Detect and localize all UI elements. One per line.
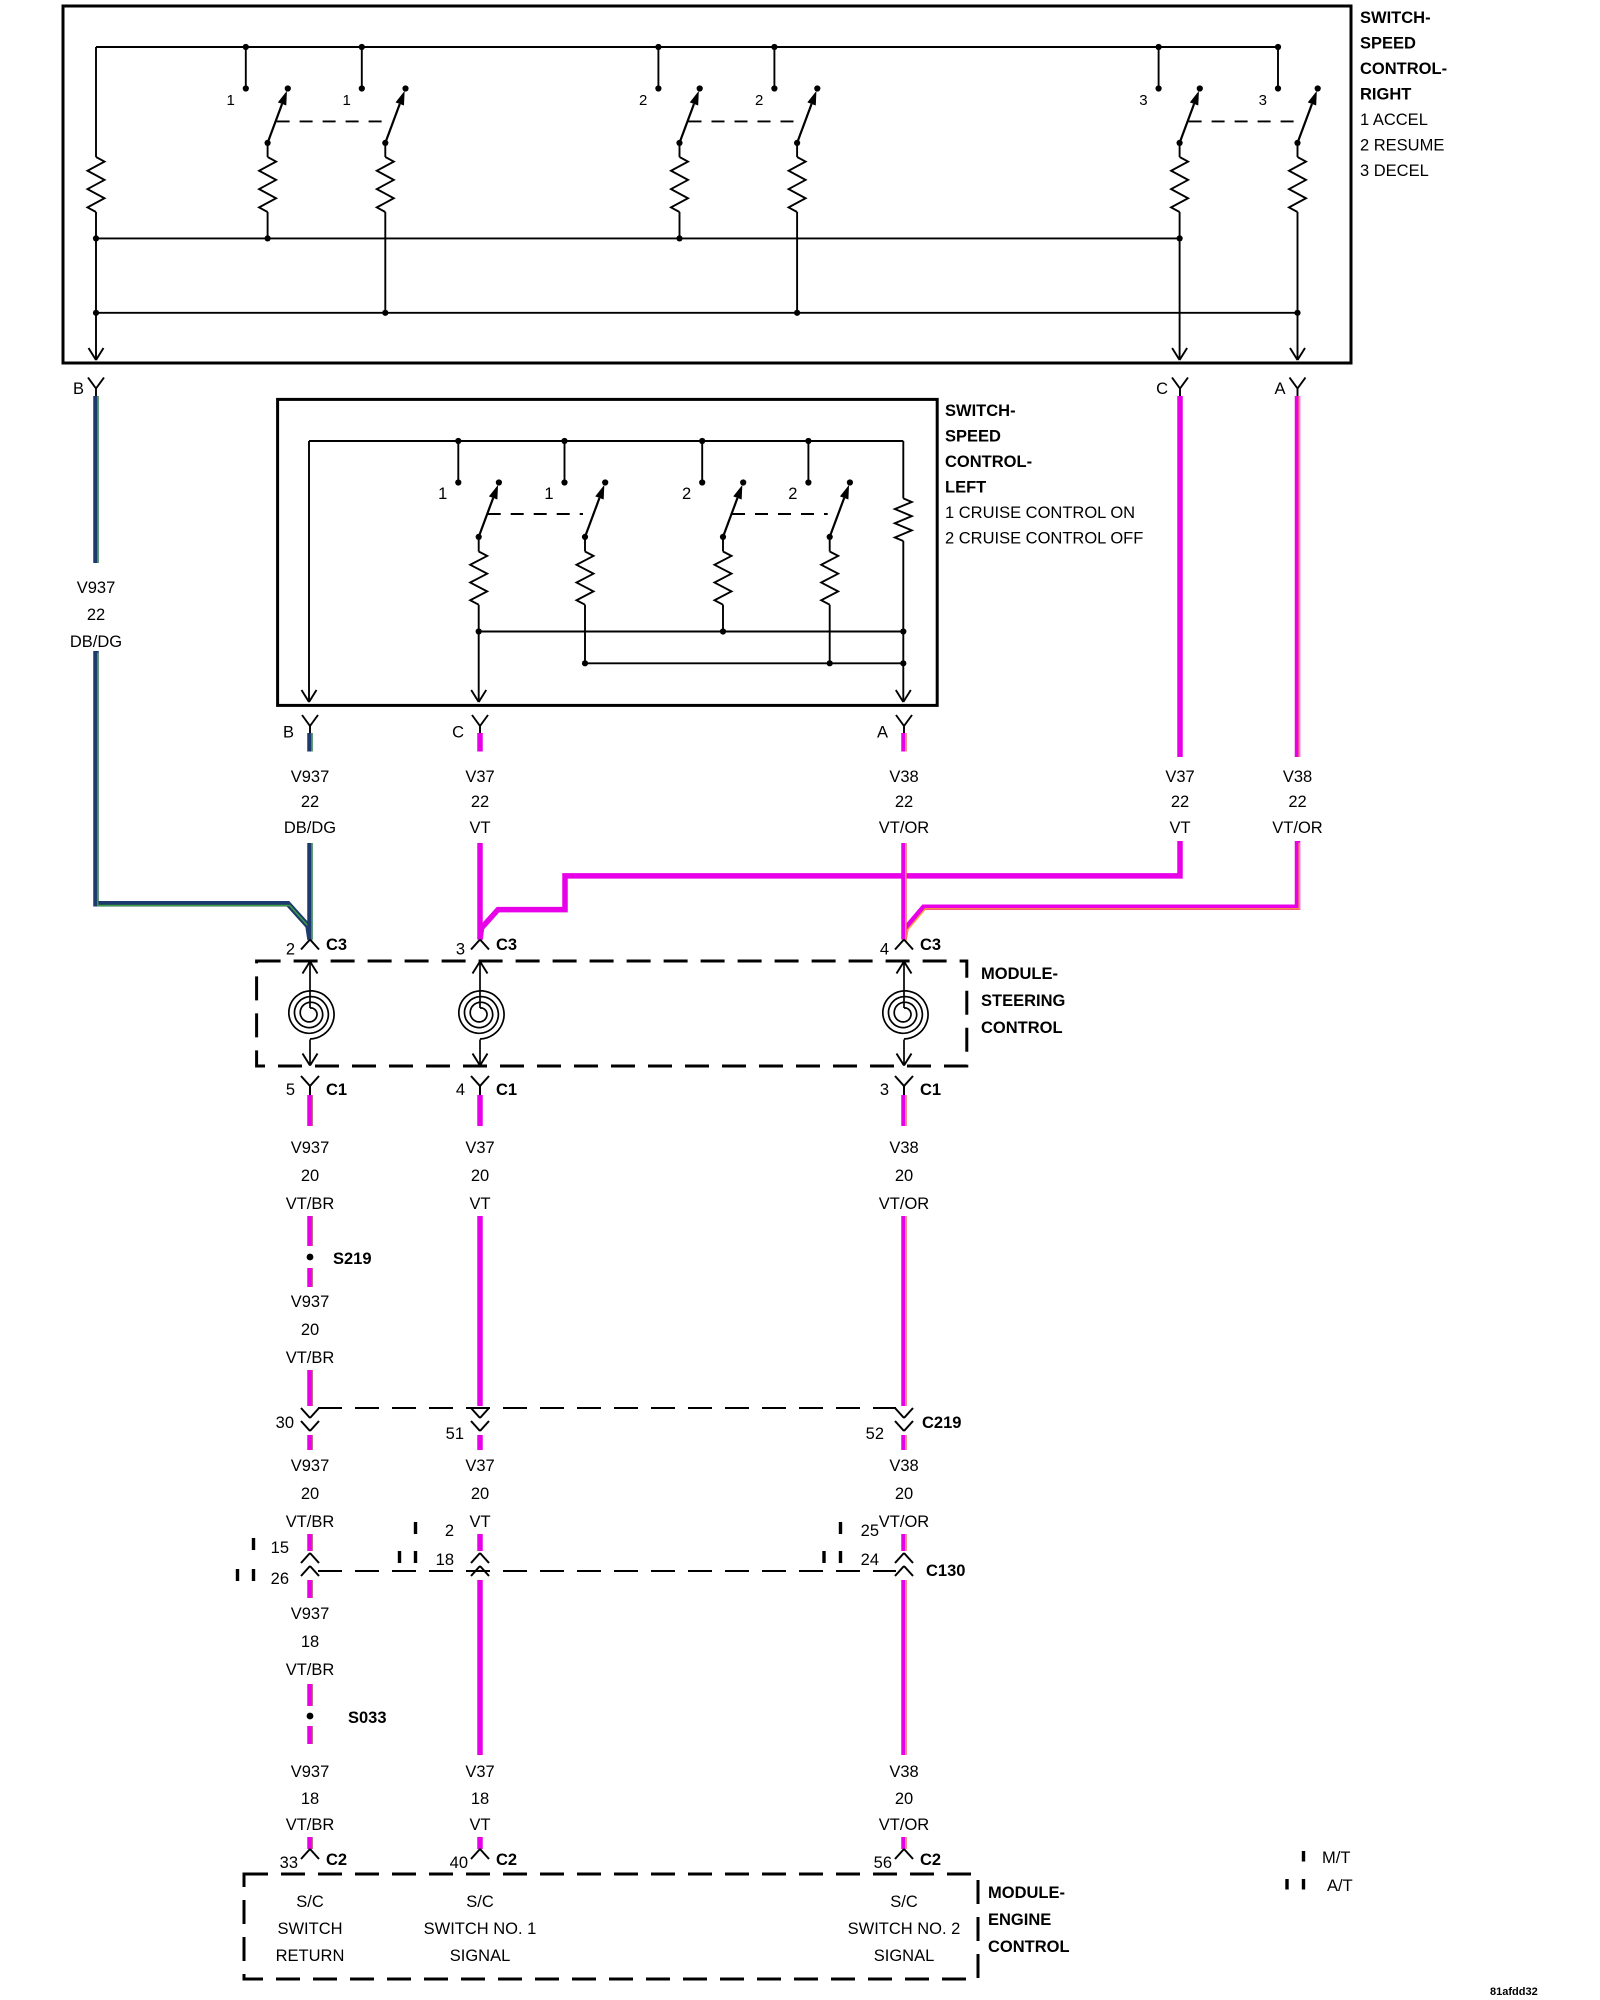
- svg-text:18: 18: [301, 1790, 319, 1808]
- svg-text:20: 20: [471, 1485, 489, 1503]
- svg-text:81afdd32: 81afdd32: [1490, 1986, 1538, 1998]
- svg-text:1: 1: [342, 92, 350, 109]
- svg-text:M/T: M/T: [1322, 1849, 1350, 1867]
- svg-text:V37: V37: [1165, 768, 1194, 786]
- svg-text:DB/DG: DB/DG: [70, 633, 122, 651]
- svg-text:VT/BR: VT/BR: [286, 1513, 335, 1531]
- svg-text:SPEED: SPEED: [945, 428, 1001, 446]
- svg-text:C1: C1: [920, 1081, 941, 1099]
- svg-text:20: 20: [301, 1167, 319, 1185]
- svg-text:VT/OR: VT/OR: [879, 1195, 930, 1213]
- svg-text:S/C: S/C: [466, 1893, 494, 1911]
- svg-text:22: 22: [471, 793, 489, 811]
- svg-text:V38: V38: [889, 1763, 918, 1781]
- svg-text:C219: C219: [922, 1414, 961, 1432]
- svg-text:V38: V38: [1283, 768, 1312, 786]
- svg-text:S/C: S/C: [890, 1893, 918, 1911]
- svg-text:V937: V937: [77, 579, 116, 597]
- svg-text:3: 3: [1259, 92, 1267, 109]
- svg-text:2: 2: [639, 92, 647, 109]
- svg-text:C130: C130: [926, 1562, 965, 1580]
- svg-text:V937: V937: [291, 768, 330, 786]
- svg-text:V37: V37: [465, 1457, 494, 1475]
- svg-text:40: 40: [450, 1854, 468, 1872]
- svg-text:C3: C3: [920, 936, 941, 954]
- svg-text:C2: C2: [920, 1851, 941, 1869]
- svg-text:RIGHT: RIGHT: [1360, 86, 1411, 104]
- svg-text:S033: S033: [348, 1709, 387, 1727]
- svg-text:1: 1: [226, 92, 234, 109]
- svg-text:22: 22: [1171, 793, 1189, 811]
- svg-text:1: 1: [544, 485, 553, 503]
- svg-text:18: 18: [301, 1633, 319, 1651]
- svg-text:4: 4: [880, 941, 889, 959]
- svg-text:V937: V937: [291, 1139, 330, 1157]
- svg-text:V937: V937: [291, 1457, 330, 1475]
- svg-text:CONTROL-: CONTROL-: [945, 453, 1032, 471]
- svg-text:VT: VT: [469, 1816, 490, 1834]
- svg-text:52: 52: [866, 1425, 884, 1443]
- svg-text:22: 22: [301, 793, 319, 811]
- svg-text:V38: V38: [889, 768, 918, 786]
- svg-text:VT: VT: [1169, 819, 1190, 837]
- svg-text:A: A: [877, 724, 888, 742]
- svg-text:2 RESUME: 2 RESUME: [1360, 137, 1444, 155]
- svg-text:18: 18: [471, 1790, 489, 1808]
- svg-text:VT/OR: VT/OR: [879, 819, 930, 837]
- svg-text:18: 18: [436, 1551, 454, 1569]
- svg-text:2: 2: [755, 92, 763, 109]
- svg-text:SIGNAL: SIGNAL: [874, 1947, 935, 1965]
- svg-text:3: 3: [456, 941, 465, 959]
- svg-text:A: A: [1274, 380, 1285, 398]
- svg-text:3: 3: [880, 1081, 889, 1099]
- svg-text:VT/BR: VT/BR: [286, 1349, 335, 1367]
- svg-text:VT/BR: VT/BR: [286, 1195, 335, 1213]
- svg-text:3 DECEL: 3 DECEL: [1360, 162, 1429, 180]
- svg-text:V37: V37: [465, 768, 494, 786]
- svg-text:B: B: [283, 724, 294, 742]
- svg-text:B: B: [73, 380, 84, 398]
- svg-text:SPEED: SPEED: [1360, 35, 1416, 53]
- svg-text:ENGINE: ENGINE: [988, 1911, 1051, 1929]
- svg-text:VT: VT: [469, 819, 490, 837]
- svg-text:VT: VT: [469, 1195, 490, 1213]
- svg-text:CONTROL: CONTROL: [988, 1938, 1070, 1956]
- svg-text:4: 4: [456, 1081, 465, 1099]
- svg-text:1: 1: [438, 485, 447, 503]
- svg-text:24: 24: [861, 1551, 879, 1569]
- svg-text:15: 15: [271, 1539, 289, 1557]
- svg-text:C: C: [452, 724, 464, 742]
- svg-text:RETURN: RETURN: [276, 1947, 345, 1965]
- svg-text:V937: V937: [291, 1763, 330, 1781]
- svg-text:1 ACCEL: 1 ACCEL: [1360, 111, 1428, 129]
- svg-text:SWITCH-: SWITCH-: [945, 402, 1016, 420]
- svg-text:20: 20: [471, 1167, 489, 1185]
- svg-text:5: 5: [286, 1081, 295, 1099]
- svg-text:S219: S219: [333, 1250, 372, 1268]
- svg-text:VT/BR: VT/BR: [286, 1816, 335, 1834]
- svg-text:LEFT: LEFT: [945, 479, 986, 497]
- svg-text:22: 22: [1288, 793, 1306, 811]
- svg-text:V937: V937: [291, 1293, 330, 1311]
- svg-text:STEERING: STEERING: [981, 992, 1065, 1010]
- svg-text:SWITCH: SWITCH: [277, 1920, 342, 1938]
- svg-text:2: 2: [682, 485, 691, 503]
- svg-text:2 CRUISE CONTROL OFF: 2 CRUISE CONTROL OFF: [945, 530, 1143, 548]
- svg-text:SWITCH-: SWITCH-: [1360, 9, 1431, 27]
- svg-text:SWITCH NO. 1: SWITCH NO. 1: [424, 1920, 537, 1938]
- svg-text:2: 2: [788, 485, 797, 503]
- svg-text:VT: VT: [469, 1513, 490, 1531]
- svg-text:C1: C1: [326, 1081, 347, 1099]
- svg-text:V38: V38: [889, 1457, 918, 1475]
- svg-text:A/T: A/T: [1327, 1877, 1353, 1895]
- svg-text:20: 20: [301, 1321, 319, 1339]
- svg-text:2: 2: [286, 941, 295, 959]
- svg-text:33: 33: [280, 1854, 298, 1872]
- svg-text:VT/OR: VT/OR: [879, 1816, 930, 1834]
- svg-text:56: 56: [874, 1854, 892, 1872]
- svg-text:MODULE-: MODULE-: [981, 965, 1058, 983]
- svg-text:2: 2: [445, 1522, 454, 1540]
- svg-text:SWITCH NO. 2: SWITCH NO. 2: [848, 1920, 961, 1938]
- svg-text:22: 22: [87, 606, 105, 624]
- svg-text:1 CRUISE CONTROL ON: 1 CRUISE CONTROL ON: [945, 504, 1135, 522]
- svg-text:C3: C3: [326, 936, 347, 954]
- svg-text:CONTROL-: CONTROL-: [1360, 60, 1447, 78]
- svg-text:20: 20: [895, 1485, 913, 1503]
- svg-text:V38: V38: [889, 1139, 918, 1157]
- svg-text:VT/BR: VT/BR: [286, 1661, 335, 1679]
- svg-text:3: 3: [1139, 92, 1147, 109]
- svg-text:C2: C2: [326, 1851, 347, 1869]
- svg-text:20: 20: [895, 1167, 913, 1185]
- svg-text:22: 22: [895, 793, 913, 811]
- svg-text:C2: C2: [496, 1851, 517, 1869]
- svg-text:25: 25: [861, 1522, 879, 1540]
- svg-text:SIGNAL: SIGNAL: [450, 1947, 511, 1965]
- svg-text:C1: C1: [496, 1081, 517, 1099]
- svg-text:MODULE-: MODULE-: [988, 1884, 1065, 1902]
- svg-text:CONTROL: CONTROL: [981, 1019, 1063, 1037]
- svg-text:26: 26: [271, 1570, 289, 1588]
- svg-text:V37: V37: [465, 1763, 494, 1781]
- svg-text:VT/OR: VT/OR: [1272, 819, 1323, 837]
- svg-text:20: 20: [895, 1790, 913, 1808]
- svg-text:C: C: [1156, 380, 1168, 398]
- svg-text:30: 30: [276, 1414, 294, 1432]
- svg-text:DB/DG: DB/DG: [284, 819, 336, 837]
- svg-text:51: 51: [446, 1425, 464, 1443]
- svg-text:V37: V37: [465, 1139, 494, 1157]
- svg-text:VT/OR: VT/OR: [879, 1513, 930, 1531]
- svg-text:C3: C3: [496, 936, 517, 954]
- svg-text:S/C: S/C: [296, 1893, 324, 1911]
- svg-text:20: 20: [301, 1485, 319, 1503]
- svg-text:V937: V937: [291, 1605, 330, 1623]
